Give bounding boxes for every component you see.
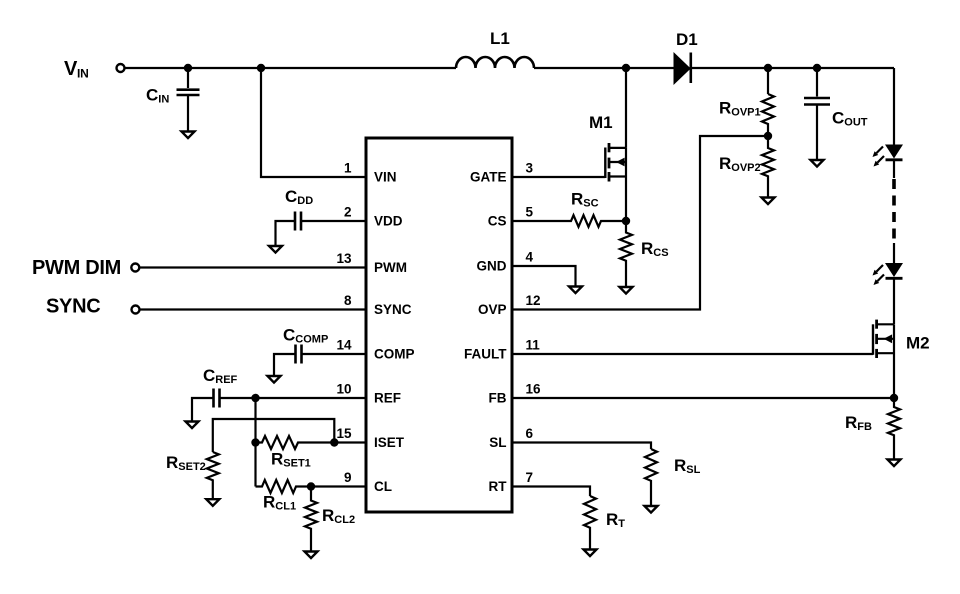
ground under CCOMP <box>268 376 281 383</box>
svg-text:SL: SL <box>489 435 506 450</box>
svg-text:15: 15 <box>336 426 352 441</box>
svg-text:SYNC: SYNC <box>374 302 412 317</box>
transistor M1 <box>589 68 626 221</box>
pin 16 FB <box>489 382 542 406</box>
svg-text:2: 2 <box>344 205 352 220</box>
capacitor COUT <box>804 68 868 160</box>
resistor RCL1 <box>256 480 367 513</box>
svg-text:D1: D1 <box>676 30 698 49</box>
junction CS node <box>622 217 630 225</box>
wire SYNC <box>140 308 367 310</box>
ground under COUT <box>811 160 824 167</box>
svg-text:16: 16 <box>526 382 542 397</box>
ground under RSL <box>645 506 658 513</box>
inductor L1 <box>456 29 534 68</box>
capacitor CDD <box>276 187 314 246</box>
junction ISET node <box>330 438 338 446</box>
svg-text:13: 13 <box>336 251 352 266</box>
resistor ROVP1 <box>719 68 774 136</box>
pin 2 VDD <box>301 205 403 229</box>
wire GND pin <box>512 266 576 287</box>
pin 13 PWM <box>336 251 407 275</box>
junction REF tap <box>251 394 259 402</box>
wire top rail left <box>125 67 456 69</box>
wire FB <box>512 397 894 399</box>
wire dashed LED string <box>892 179 896 243</box>
ground pin4 <box>569 287 582 294</box>
wire top rail middle <box>534 67 674 69</box>
junction VIN drop <box>257 64 265 72</box>
resistor RSET1 <box>256 436 367 470</box>
svg-text:GND: GND <box>477 259 507 274</box>
wire REF down to CL row <box>254 398 256 487</box>
ground under CIN <box>182 132 195 139</box>
svg-text:ISET: ISET <box>374 435 405 450</box>
pin 8 SYNC <box>344 293 412 317</box>
resistor RFB <box>845 398 900 460</box>
ground under RCS <box>620 287 633 294</box>
LED D2 top <box>873 145 904 167</box>
junction C_IN tap <box>184 64 192 72</box>
pin 10 REF <box>336 382 401 406</box>
pin 7 RT <box>489 470 534 494</box>
svg-text:5: 5 <box>526 205 534 220</box>
capacitor CCOMP <box>274 326 366 377</box>
pin 4 GND <box>477 250 534 274</box>
pin 11 FAULT <box>464 338 540 362</box>
svg-text:7: 7 <box>526 470 534 485</box>
svg-text:VIN: VIN <box>374 170 397 185</box>
junction M1 drain <box>622 64 630 72</box>
svg-text:OVP: OVP <box>478 302 507 317</box>
svg-text:GATE: GATE <box>470 170 507 185</box>
svg-text:3: 3 <box>526 161 534 176</box>
resistor RCS <box>620 221 669 287</box>
pin 15 ISET <box>336 426 404 450</box>
wire PWM <box>140 266 367 268</box>
wire LED link <box>893 160 895 178</box>
wire FAULT to M2 gate <box>512 353 873 355</box>
svg-text:CS: CS <box>488 214 507 229</box>
svg-text:PWM DIM: PWM DIM <box>32 257 121 279</box>
junction FB node <box>890 394 898 402</box>
junction ROVP tap <box>764 64 772 72</box>
wire ISET loop to RSET2 <box>213 419 334 452</box>
resistor RSC <box>512 190 626 227</box>
ground under RSET2 <box>206 499 219 506</box>
transistor M2 <box>873 320 930 398</box>
resistor ROVP2 <box>719 136 774 198</box>
LED D3 bottom <box>873 263 904 285</box>
pin 9 CL <box>344 470 392 494</box>
op-amp U1 IC body <box>366 138 512 512</box>
svg-text:9: 9 <box>344 470 352 485</box>
resistor RT <box>584 496 625 549</box>
wire LED link 2 <box>893 243 895 263</box>
junction RSET1 left <box>251 438 259 446</box>
wire VIN drop to pin 1 <box>261 68 366 177</box>
ground under CDD <box>269 246 282 253</box>
svg-text:11: 11 <box>526 338 541 353</box>
junction ROVP divider <box>764 132 772 140</box>
terminal circle VIN <box>117 64 125 72</box>
pin 1 VIN <box>344 161 397 185</box>
capacitor CREF <box>192 366 366 422</box>
junction COUT tap <box>813 64 821 72</box>
resistor RSL <box>645 449 701 506</box>
svg-text:FB: FB <box>489 391 507 406</box>
svg-text:M2: M2 <box>906 334 930 353</box>
wire RT <box>512 487 590 497</box>
svg-text:10: 10 <box>336 382 351 397</box>
pin 3 GATE <box>470 161 534 185</box>
pin 14 COMP <box>336 338 414 362</box>
svg-text:8: 8 <box>344 293 352 308</box>
svg-text:COMP: COMP <box>374 347 415 362</box>
ground under CREF <box>186 422 199 429</box>
wire LED to M2 drain <box>893 278 895 325</box>
pin 6 SL <box>489 426 533 450</box>
wire LED string top <box>893 68 895 146</box>
ground under RFB <box>888 460 901 467</box>
pin 12 OVP <box>478 293 541 317</box>
svg-text:VDD: VDD <box>374 214 403 229</box>
svg-text:4: 4 <box>526 250 534 265</box>
svg-text:PWM: PWM <box>374 260 407 275</box>
ground under RCL2 <box>305 552 318 559</box>
wire top rail right <box>692 67 894 69</box>
wire SL <box>512 443 651 450</box>
svg-text:6: 6 <box>526 426 534 441</box>
pin 5 CS <box>488 205 534 229</box>
diode D1 <box>674 30 698 84</box>
svg-text:M1: M1 <box>589 113 613 132</box>
node PWM DIM terminal <box>32 257 139 279</box>
svg-text:L1: L1 <box>490 29 510 48</box>
svg-text:14: 14 <box>336 338 352 353</box>
svg-text:SYNC: SYNC <box>46 296 100 318</box>
wire OVP to ROVP divider <box>512 136 768 310</box>
svg-text:RT: RT <box>489 479 508 494</box>
svg-text:12: 12 <box>526 293 541 308</box>
ground under ROVP2 <box>762 198 775 205</box>
svg-text:FAULT: FAULT <box>464 347 507 362</box>
ground under RT <box>584 550 597 557</box>
svg-text:REF: REF <box>374 391 401 406</box>
junction RCL2 node <box>307 482 315 490</box>
node SYNC terminal <box>46 296 140 318</box>
resistor RCL2 <box>305 487 355 552</box>
wire GATE to M1 <box>512 176 605 178</box>
resistor RSET2 <box>166 452 219 499</box>
svg-text:CL: CL <box>374 479 392 494</box>
capacitor CIN <box>146 68 200 132</box>
svg-text:1: 1 <box>344 161 352 176</box>
